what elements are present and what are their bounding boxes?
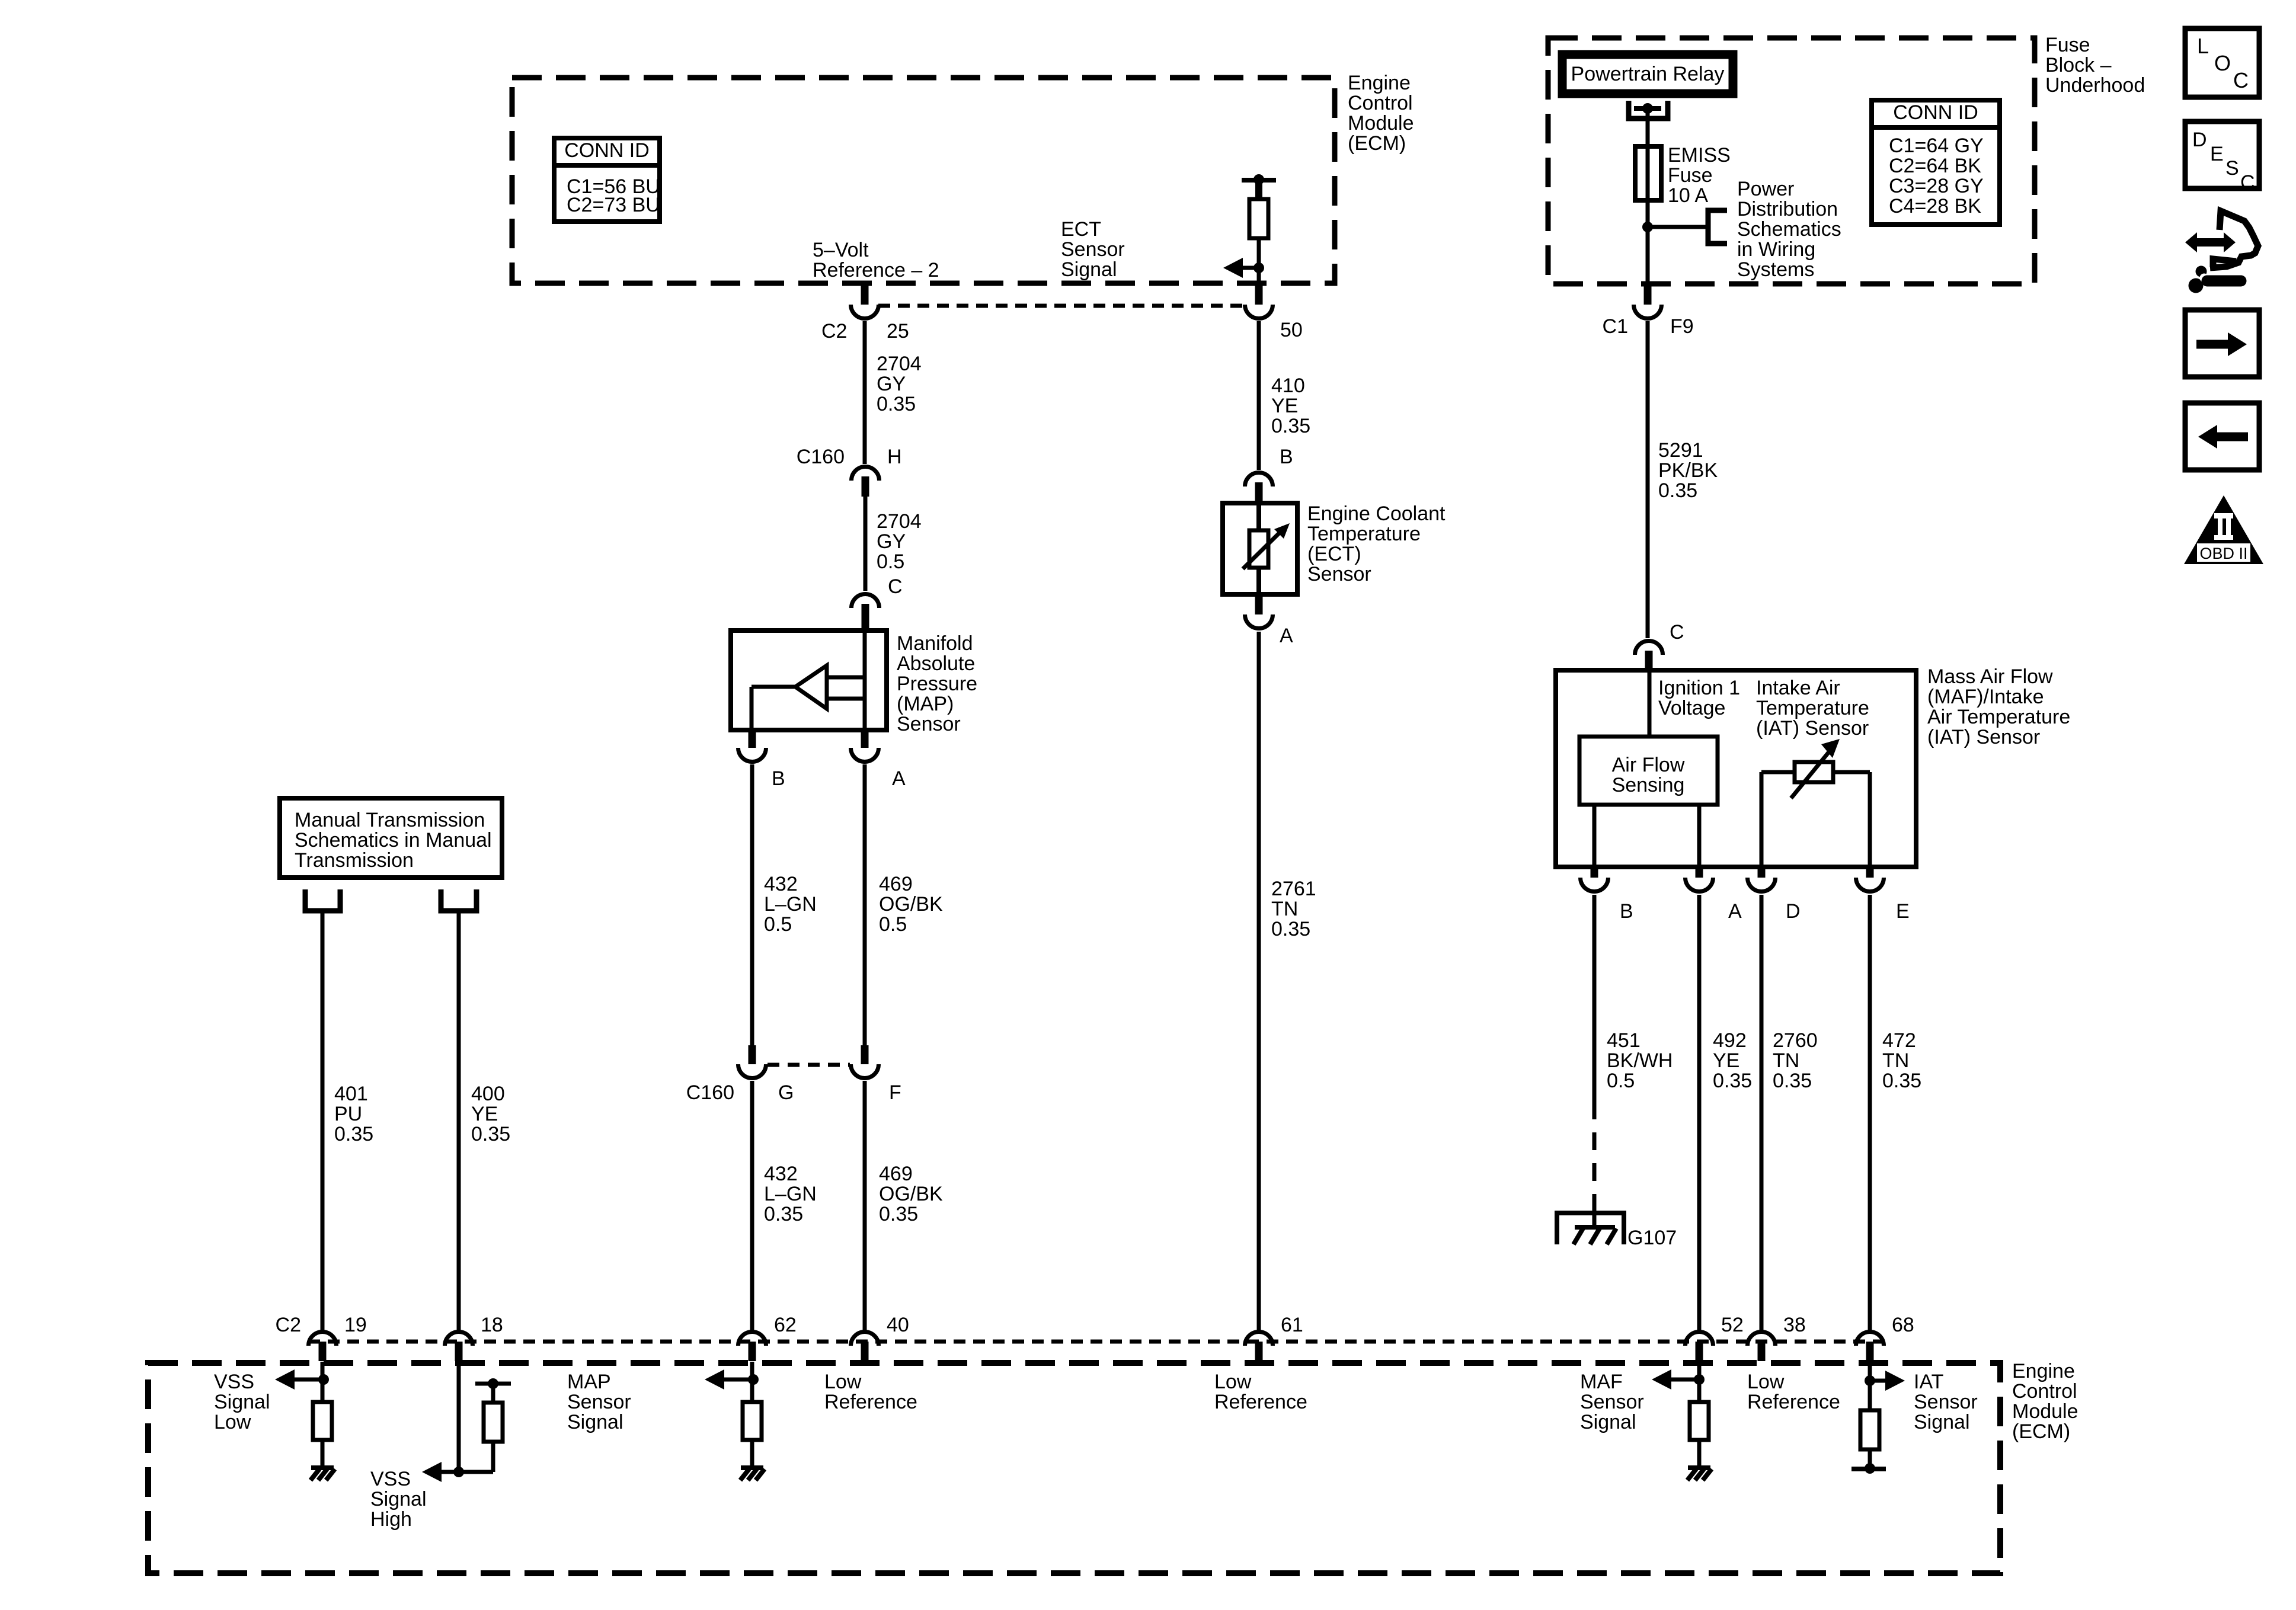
wire 472 TN 0.35 (MAF E to ECM pin 68) bbox=[1868, 895, 1872, 1330]
svg-text:MAF: MAF bbox=[1580, 1371, 1623, 1393]
svg-text:C2: C2 bbox=[821, 320, 847, 343]
MAP sensor internal wiring and transducer triangle bbox=[863, 630, 867, 730]
svg-text:C160: C160 bbox=[797, 446, 845, 468]
svg-text:OBD II: OBD II bbox=[2199, 545, 2247, 562]
svg-text:TN: TN bbox=[1271, 898, 1298, 920]
junction dot at relay terminal bbox=[1642, 103, 1653, 114]
svg-text:GY: GY bbox=[877, 373, 906, 395]
ECT sensor box (Engine Coolant Temperature) bbox=[1223, 503, 1297, 594]
ECM connector face C2 (dotted line, top) bbox=[878, 304, 1246, 308]
svg-text:EMISS: EMISS bbox=[1668, 144, 1731, 167]
ECM internal: VSS Signal Low circuit (pin 19) bbox=[321, 1362, 325, 1403]
svg-text:Air Temperature: Air Temperature bbox=[1927, 706, 2070, 728]
svg-text:(ECM): (ECM) bbox=[1348, 132, 1406, 155]
svg-text:(IAT) Sensor: (IAT) Sensor bbox=[1756, 717, 1869, 740]
svg-text:O: O bbox=[2214, 51, 2231, 75]
svg-text:0.35: 0.35 bbox=[471, 1123, 510, 1145]
svg-text:IAT: IAT bbox=[1914, 1371, 1943, 1393]
Fuse Block - Underhood dashed box bbox=[1548, 38, 2035, 284]
CONN ID table (fuse block connectors) bbox=[1872, 100, 2000, 225]
resistor (VSS low pull) bbox=[313, 1402, 332, 1440]
connector: MAF pin B bbox=[1591, 867, 1598, 878]
svg-text:D: D bbox=[1786, 900, 1801, 923]
svg-text:A: A bbox=[1728, 900, 1742, 923]
svg-text:Temperature: Temperature bbox=[1307, 523, 1421, 545]
wire 2761 TN 0.35 (ECT A to ECM pin 61) bbox=[1257, 632, 1261, 1330]
icon: back arrow box bbox=[2185, 403, 2259, 470]
svg-text:L–GN: L–GN bbox=[764, 893, 817, 916]
connector: ECM pin 61 bbox=[1245, 1332, 1273, 1346]
wire 451 BK/WH 0.5 (MAF B to ground G107) bbox=[1593, 895, 1597, 1102]
svg-text:Reference: Reference bbox=[1747, 1391, 1840, 1413]
icon: LOC box bbox=[2185, 28, 2259, 97]
wire 400 YE 0.35 (to ECM pin 18) bbox=[457, 913, 461, 1330]
connector C160 pin F bbox=[861, 1045, 869, 1064]
svg-text:0.5: 0.5 bbox=[877, 550, 904, 573]
svg-text:(IAT) Sensor: (IAT) Sensor bbox=[1927, 726, 2040, 748]
svg-text:Block –: Block – bbox=[2045, 54, 2112, 76]
svg-text:C2: C2 bbox=[276, 1314, 301, 1336]
svg-text:ECT: ECT bbox=[1061, 218, 1101, 241]
svg-text:E: E bbox=[2210, 143, 2224, 165]
connector: MAF pin A bbox=[1696, 867, 1703, 878]
svg-text:(ECM): (ECM) bbox=[2012, 1420, 2070, 1443]
wire 432 L-GN 0.35 (C160 G to ECM pin 62) bbox=[750, 1081, 754, 1330]
svg-text:0.35: 0.35 bbox=[1271, 415, 1310, 437]
wire 410 YE 0.35 (ECM pin 50 to ECT sensor B) bbox=[1257, 321, 1261, 470]
ECM bottom dashed box (Engine Control Module) bbox=[148, 1363, 2000, 1573]
svg-text:in Wiring: in Wiring bbox=[1737, 238, 1815, 261]
wire: ECT signal down to pin 50 bbox=[1257, 268, 1261, 285]
connector: MAF sensor pin C bbox=[1635, 641, 1662, 655]
svg-text:A: A bbox=[892, 767, 906, 790]
connector: ECM pin 19 bbox=[309, 1332, 337, 1346]
svg-text:(MAP): (MAP) bbox=[897, 693, 954, 715]
connector: ECM pin 38 bbox=[1748, 1332, 1776, 1346]
ECM internal: MAP Sensor Signal circuit (pin 62) bbox=[750, 1362, 754, 1403]
connector: ECM pin 52 bbox=[1686, 1332, 1713, 1346]
svg-text:Fuse: Fuse bbox=[2045, 34, 2090, 56]
svg-text:2761: 2761 bbox=[1271, 878, 1316, 900]
CONN ID table (ECM connectors) bbox=[554, 138, 660, 222]
connector: ECM pin 40 bbox=[851, 1332, 879, 1346]
svg-text:G: G bbox=[778, 1081, 794, 1104]
svg-text:18: 18 bbox=[481, 1314, 503, 1336]
svg-text:C: C bbox=[2240, 171, 2255, 194]
svg-text:38: 38 bbox=[1783, 1314, 1806, 1336]
svg-text:2704: 2704 bbox=[877, 510, 922, 533]
svg-text:Powertrain Relay: Powertrain Relay bbox=[1571, 63, 1725, 85]
internal rail tap (IAT pull-up) bbox=[1851, 1467, 1886, 1471]
svg-text:Manifold: Manifold bbox=[897, 632, 973, 655]
signal arrow: IAT Sensor Signal bbox=[1885, 1371, 1905, 1391]
svg-text:B: B bbox=[1620, 900, 1633, 923]
svg-text:B: B bbox=[772, 767, 785, 790]
svg-text:PK/BK: PK/BK bbox=[1658, 459, 1718, 482]
connector: ECM pin 18 bbox=[445, 1332, 473, 1346]
svg-text:Voltage: Voltage bbox=[1658, 697, 1725, 719]
svg-text:Low: Low bbox=[214, 1411, 251, 1433]
svg-text:VSS: VSS bbox=[214, 1371, 254, 1393]
svg-text:YE: YE bbox=[1271, 395, 1298, 417]
svg-text:F9: F9 bbox=[1670, 315, 1694, 338]
wire 2704 GY 0.5 (C160 H to MAP sensor C) bbox=[864, 497, 868, 591]
connector: ECT sensor pin B bbox=[1245, 472, 1273, 486]
IAT thermistor loop wiring bbox=[1760, 772, 1764, 867]
svg-text:L–GN: L–GN bbox=[764, 1183, 817, 1205]
wire: Air Flow Sensing to pin B bbox=[1593, 805, 1597, 867]
connector: MAP sensor pin C bbox=[852, 594, 880, 608]
svg-text:MAP: MAP bbox=[567, 1371, 611, 1393]
svg-text:C: C bbox=[888, 575, 903, 598]
svg-text:CONN ID: CONN ID bbox=[564, 139, 650, 162]
MAF/IAT sensor box (Mass Air Flow / Intake Air Temperature) bbox=[1556, 670, 1916, 867]
svg-text:Signal: Signal bbox=[214, 1391, 270, 1413]
wire: MAF pin C to Air Flow Sensing bbox=[1648, 670, 1652, 737]
resistor (MAF signal pull) bbox=[1690, 1402, 1709, 1440]
svg-text:Fuse: Fuse bbox=[1668, 164, 1713, 187]
svg-text:D: D bbox=[2192, 129, 2207, 151]
svg-text:Manual Transmission: Manual Transmission bbox=[295, 809, 485, 831]
wire 2760 TN 0.35 (MAF D to ECM pin 38) bbox=[1760, 895, 1764, 1330]
ground (ECM internal, pin 19) bbox=[311, 1465, 334, 1470]
svg-text:25: 25 bbox=[887, 320, 909, 343]
wire 492 YE 0.35 (MAF A to ECM pin 52) bbox=[1697, 895, 1702, 1330]
svg-text:0.35: 0.35 bbox=[334, 1123, 373, 1145]
svg-text:(MAF)/Intake: (MAF)/Intake bbox=[1927, 686, 2044, 708]
svg-text:61: 61 bbox=[1281, 1314, 1303, 1336]
svg-text:Low: Low bbox=[1214, 1371, 1252, 1393]
svg-text:VSS: VSS bbox=[370, 1468, 411, 1490]
svg-text:410: 410 bbox=[1271, 375, 1305, 397]
ECM top dashed box (Engine Control Module) bbox=[512, 78, 1335, 283]
svg-text:C: C bbox=[2233, 68, 2249, 92]
junction dot to power distribution reference bbox=[1642, 222, 1653, 232]
icon: OBD II triangle bbox=[2184, 495, 2263, 564]
svg-text:0.35: 0.35 bbox=[1271, 918, 1310, 940]
svg-text:0.35: 0.35 bbox=[877, 393, 916, 415]
svg-text:Signal: Signal bbox=[370, 1488, 427, 1510]
svg-text:Absolute: Absolute bbox=[897, 652, 975, 675]
resistor (VSS high pull) bbox=[484, 1403, 503, 1442]
ECT pull-up resistor R (inside ECM) bbox=[1242, 178, 1276, 183]
svg-text:0.35: 0.35 bbox=[764, 1203, 803, 1225]
svg-text:5291: 5291 bbox=[1658, 439, 1703, 462]
Air Flow Sensing box bbox=[1579, 737, 1718, 805]
connector: MAF pin E bbox=[1866, 867, 1874, 878]
svg-text:40: 40 bbox=[887, 1314, 909, 1336]
svg-text:Mass Air Flow: Mass Air Flow bbox=[1927, 665, 2053, 688]
icon: DESC box bbox=[2185, 121, 2259, 188]
svg-text:Module: Module bbox=[2012, 1400, 2078, 1423]
off-page bracket: VSS signal low bbox=[305, 889, 340, 911]
svg-text:19: 19 bbox=[344, 1314, 367, 1336]
svg-text:C1: C1 bbox=[1603, 315, 1628, 338]
svg-text:High: High bbox=[370, 1508, 412, 1531]
svg-text:G107: G107 bbox=[1627, 1227, 1677, 1249]
svg-text:401: 401 bbox=[334, 1083, 368, 1105]
svg-text:TN: TN bbox=[1882, 1049, 1909, 1072]
junction dot on ECT signal wire bbox=[1253, 263, 1264, 273]
svg-text:Underhood: Underhood bbox=[2045, 74, 2145, 97]
connector C1 pin F9 bbox=[1644, 285, 1652, 305]
svg-text:Systems: Systems bbox=[1737, 258, 1814, 281]
svg-text:Signal: Signal bbox=[567, 1411, 623, 1433]
connector: MAF pin D bbox=[1758, 867, 1766, 878]
relay output terminal socket bracket bbox=[1629, 101, 1668, 119]
svg-text:Sensing: Sensing bbox=[1612, 774, 1685, 796]
svg-text:S: S bbox=[2225, 157, 2239, 180]
ground (ECM internal, pin 62) bbox=[741, 1465, 763, 1470]
signal arrow: MAP Sensor Signal bbox=[705, 1369, 724, 1390]
svg-text:GY: GY bbox=[877, 530, 906, 553]
svg-text:0.35: 0.35 bbox=[879, 1203, 918, 1225]
svg-text:OG/BK: OG/BK bbox=[879, 893, 943, 916]
svg-text:PU: PU bbox=[334, 1103, 362, 1125]
connector: ECM pin 68 bbox=[1856, 1332, 1884, 1346]
IAT thermistor symbol bbox=[1795, 762, 1833, 782]
Powertrain Relay box bbox=[1562, 55, 1733, 94]
svg-text:469: 469 bbox=[879, 1163, 913, 1185]
connector: ECT sensor pin A bbox=[1255, 594, 1263, 614]
svg-text:Power: Power bbox=[1737, 178, 1794, 200]
svg-text:400: 400 bbox=[471, 1083, 505, 1105]
svg-text:C1=64 GY: C1=64 GY bbox=[1889, 135, 1984, 157]
resistor (IAT pull-up) bbox=[1860, 1410, 1879, 1449]
svg-text:E: E bbox=[1896, 900, 1910, 923]
svg-text:Ignition 1: Ignition 1 bbox=[1658, 677, 1740, 699]
svg-text:C2=73 BU: C2=73 BU bbox=[567, 194, 660, 216]
svg-text:Engine Coolant: Engine Coolant bbox=[1307, 502, 1446, 525]
svg-text:0.5: 0.5 bbox=[1607, 1070, 1635, 1092]
svg-text:2760: 2760 bbox=[1773, 1029, 1818, 1052]
Manual Transmission Schematics reference box bbox=[280, 798, 502, 878]
connector: MAP sensor pin B bbox=[749, 730, 756, 748]
svg-text:Distribution: Distribution bbox=[1737, 198, 1838, 220]
svg-text:432: 432 bbox=[764, 1163, 798, 1185]
icon: forward arrow box bbox=[2185, 310, 2259, 377]
svg-text:Sensor: Sensor bbox=[1307, 563, 1371, 585]
ECM internal: MAF Sensor Signal circuit (pin 52) bbox=[1697, 1362, 1702, 1403]
wire: tap to power distribution bracket bbox=[1648, 225, 1708, 229]
svg-text:OG/BK: OG/BK bbox=[879, 1183, 943, 1205]
svg-text:0.35: 0.35 bbox=[1882, 1070, 1921, 1092]
svg-text:Temperature: Temperature bbox=[1756, 697, 1869, 719]
signal arrow: VSS Signal High bbox=[422, 1462, 442, 1482]
icon: diagnostic tool (arrows and wrench) bbox=[2185, 232, 2197, 252]
svg-text:492: 492 bbox=[1713, 1029, 1747, 1052]
svg-text:YE: YE bbox=[471, 1103, 498, 1125]
svg-text:C2=64 BK: C2=64 BK bbox=[1889, 155, 1981, 177]
svg-text:C3=28 GY: C3=28 GY bbox=[1889, 175, 1984, 197]
svg-text:Low: Low bbox=[1747, 1371, 1785, 1393]
svg-text:Signal: Signal bbox=[1580, 1411, 1636, 1433]
wire 469 OG/BK 0.5 (MAP A to C160 F) bbox=[863, 764, 867, 1045]
svg-text:451: 451 bbox=[1607, 1029, 1641, 1052]
svg-text:F: F bbox=[889, 1081, 901, 1104]
wire 401 PU 0.35 (to ECM pin 19) bbox=[321, 913, 325, 1330]
svg-text:C: C bbox=[1670, 621, 1684, 644]
svg-text:Transmission: Transmission bbox=[295, 849, 414, 872]
svg-text:0.35: 0.35 bbox=[1713, 1070, 1752, 1092]
ground G107 (chassis ground) bbox=[1557, 1213, 1624, 1244]
svg-text:Low: Low bbox=[824, 1371, 862, 1393]
svg-text:5–Volt: 5–Volt bbox=[813, 239, 869, 261]
svg-text:Signal: Signal bbox=[1914, 1411, 1970, 1433]
svg-text:YE: YE bbox=[1713, 1049, 1739, 1072]
svg-text:Module: Module bbox=[1348, 112, 1414, 135]
connector C160 face (dashed line) bbox=[768, 1063, 850, 1067]
svg-text:Reference: Reference bbox=[824, 1391, 917, 1413]
svg-text:Schematics in Manual: Schematics in Manual bbox=[295, 829, 492, 852]
connector: ECM pin 62 bbox=[738, 1332, 766, 1346]
svg-text:C160: C160 bbox=[686, 1081, 734, 1104]
svg-text:BK/WH: BK/WH bbox=[1607, 1049, 1673, 1072]
wire: Air Flow Sensing to pin A bbox=[1697, 805, 1702, 867]
svg-text:52: 52 bbox=[1721, 1314, 1744, 1336]
svg-text:62: 62 bbox=[774, 1314, 797, 1336]
svg-text:Reference: Reference bbox=[1214, 1391, 1307, 1413]
connector C2 pin 25 bbox=[861, 283, 869, 305]
svg-text:C4=28 BK: C4=28 BK bbox=[1889, 195, 1981, 217]
svg-text:10 A: 10 A bbox=[1668, 184, 1708, 207]
svg-text:Sensor: Sensor bbox=[1580, 1391, 1644, 1413]
svg-text:Engine: Engine bbox=[2012, 1360, 2075, 1382]
EMISS Fuse 10 A bbox=[1635, 146, 1661, 200]
svg-text:TN: TN bbox=[1773, 1049, 1799, 1072]
svg-text:432: 432 bbox=[764, 873, 798, 895]
signal arrow: MAF Sensor Signal bbox=[1652, 1369, 1671, 1390]
svg-text:H: H bbox=[887, 446, 902, 468]
junction dot (VSS high) bbox=[453, 1467, 464, 1477]
ECM internal: VSS Signal High circuit (pin 18) bbox=[457, 1362, 461, 1472]
wire 5291 PK/BK 0.35 (F9 to MAF sensor C) bbox=[1646, 321, 1650, 638]
connector pin 50 bbox=[1255, 283, 1263, 305]
svg-text:Control: Control bbox=[2012, 1380, 2077, 1403]
svg-text:2704: 2704 bbox=[877, 353, 922, 375]
ECM internal: IAT Sensor Signal circuit (pin 68) bbox=[1868, 1362, 1872, 1411]
svg-text:Pressure: Pressure bbox=[897, 673, 977, 695]
connector C160 pin G bbox=[749, 1045, 756, 1064]
ground (ECM internal, pin 52) bbox=[1688, 1465, 1710, 1470]
svg-text:Control: Control bbox=[1348, 92, 1413, 114]
svg-text:0.5: 0.5 bbox=[764, 913, 792, 936]
svg-text:L: L bbox=[2197, 34, 2209, 58]
svg-text:0.35: 0.35 bbox=[1773, 1070, 1812, 1092]
svg-text:Intake Air: Intake Air bbox=[1756, 677, 1840, 699]
svg-text:Sensor: Sensor bbox=[897, 713, 961, 735]
svg-text:Sensor: Sensor bbox=[1061, 238, 1125, 261]
wire 432 L-GN 0.5 (MAP B to C160 G) bbox=[750, 764, 754, 1045]
svg-text:Sensor: Sensor bbox=[567, 1391, 631, 1413]
MAP sensor box (Manifold Absolute Pressure) bbox=[731, 630, 887, 730]
svg-text:Engine: Engine bbox=[1348, 72, 1411, 94]
svg-text:Reference – 2: Reference – 2 bbox=[813, 259, 939, 281]
svg-text:68: 68 bbox=[1892, 1314, 1914, 1336]
svg-text:A: A bbox=[1280, 625, 1293, 647]
svg-text:0.5: 0.5 bbox=[879, 913, 907, 936]
off-page bracket: Power Distribution Schematics bbox=[1708, 210, 1727, 244]
svg-text:50: 50 bbox=[1280, 319, 1303, 341]
svg-text:Schematics: Schematics bbox=[1737, 218, 1841, 241]
ECM connector face (dotted line, bottom) bbox=[308, 1340, 1885, 1344]
off-page bracket: VSS signal high bbox=[441, 889, 477, 911]
wire: relay to EMISS fuse bbox=[1646, 108, 1650, 148]
svg-text:472: 472 bbox=[1882, 1029, 1916, 1052]
svg-text:Sensor: Sensor bbox=[1914, 1391, 1978, 1413]
wire: fuse to connector C1 pin F9 bbox=[1646, 200, 1650, 285]
in-line connector C160 pin H bbox=[852, 466, 880, 481]
wire 469 OG/BK 0.35 (C160 F to ECM pin 40) bbox=[863, 1081, 867, 1330]
signal arrow: VSS Signal Low bbox=[275, 1369, 295, 1390]
svg-text:Signal: Signal bbox=[1061, 258, 1117, 281]
ECT thermistor symbol bbox=[1256, 503, 1261, 532]
svg-text:469: 469 bbox=[879, 873, 913, 895]
signal arrow: ECT Sensor Signal bbox=[1223, 258, 1243, 278]
connector: MAP sensor pin A bbox=[861, 730, 869, 748]
svg-text:0.35: 0.35 bbox=[1658, 479, 1697, 502]
svg-text:(ECT): (ECT) bbox=[1307, 543, 1361, 565]
resistor (MAP signal pull) bbox=[743, 1402, 762, 1440]
svg-text:B: B bbox=[1280, 446, 1293, 468]
svg-text:CONN ID: CONN ID bbox=[1893, 101, 1978, 124]
svg-text:Air Flow: Air Flow bbox=[1612, 754, 1685, 776]
wire 2704 GY 0.35 (5V ref, pin 25 to C160 H) bbox=[863, 321, 867, 464]
